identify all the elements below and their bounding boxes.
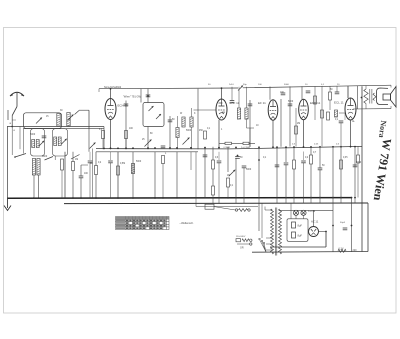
wire x320 gnd — [319, 170, 321, 198]
switch S5 — [45, 157, 54, 161]
wire x277 drop — [276, 147, 278, 198]
svg-text:25: 25 — [142, 139, 145, 141]
node pot top — [237, 155, 239, 157]
transformer T1 core b — [276, 208, 278, 256]
transformer T2 primary — [364, 89, 368, 104]
svg-text:50: 50 — [90, 163, 93, 165]
transformer T2 secondary — [373, 93, 376, 101]
node heater1 — [332, 225, 334, 227]
wire x126 low — [125, 139, 127, 150]
resistor R18 — [329, 92, 332, 100]
resistor R7 — [204, 131, 207, 139]
mains plug X1 — [250, 239, 252, 245]
capacitor C10 — [235, 157, 240, 159]
svg-text:K: K — [194, 113, 196, 115]
wire x118 drop — [117, 152, 119, 198]
svg-text:220: 220 — [353, 249, 358, 252]
wire bus tick 12 — [340, 197, 342, 202]
filter can F1 — [31, 129, 45, 156]
wire V1 cathode down — [110, 120, 112, 150]
wire x126 drop — [125, 101, 127, 150]
coupling loop L1 — [24, 113, 62, 129]
svg-text:0,1: 0,1 — [207, 128, 211, 130]
coil L15 — [335, 110, 338, 117]
svg-text:3000: 3000 — [42, 156, 48, 158]
svg-text:a: a — [10, 122, 12, 125]
svg-text:Nora-Schaltbild: Nora-Schaltbild — [104, 86, 122, 89]
svg-text:2×0,1MΩ: 2×0,1MΩ — [241, 146, 250, 149]
capacitor C30 — [108, 161, 113, 163]
wire mains lower — [237, 243, 250, 245]
junction G16 — [258, 197, 260, 199]
wire V4 plate up — [301, 86, 303, 99]
wire power bottom line — [252, 251, 368, 254]
wire V3 plate up — [269, 87, 271, 100]
wire x104 drop — [103, 127, 105, 150]
svg-text:30: 30 — [60, 110, 63, 112]
wire x250 drop — [249, 100, 251, 147]
capacitor C15 — [288, 104, 293, 106]
junction G5 — [80, 197, 82, 199]
table switch-positions — [116, 217, 170, 230]
potentiometer P1 — [229, 170, 236, 177]
svg-text:100: 100 — [129, 128, 134, 130]
wire x320 drop — [319, 147, 321, 169]
junction J8 — [169, 147, 171, 149]
wire x341 grid — [340, 123, 342, 146]
svg-text:"Wien" 791 GW: "Wien" 791 GW — [123, 94, 142, 98]
wire lamp1 drop — [295, 215, 297, 218]
svg-text:0,3: 0,3 — [215, 157, 219, 159]
resistor R12 — [227, 178, 230, 187]
wire T2 bot lead — [365, 104, 367, 109]
transformer T2 core b — [371, 89, 373, 104]
svg-text:50: 50 — [172, 119, 175, 121]
capacitor C31 — [217, 161, 222, 163]
junction G2 — [38, 197, 40, 199]
wire x228 gnd — [227, 187, 229, 198]
svg-text:450: 450 — [199, 130, 204, 132]
wire V5 plate up — [347, 86, 349, 98]
pilot lamp LA2 — [301, 210, 306, 215]
junction G15 — [243, 197, 245, 199]
junction J9 — [176, 147, 178, 149]
junction J14 — [258, 146, 260, 148]
wire L12 bot — [191, 127, 193, 149]
resistor R21 mains — [242, 239, 249, 242]
wire input line2 — [23, 128, 104, 130]
junction G21 — [332, 197, 334, 199]
wire V6 top — [313, 210, 315, 226]
osc loop L9 — [143, 103, 164, 127]
wire x232 drop — [231, 87, 233, 100]
junction J5 — [132, 147, 134, 149]
junction J21 — [319, 146, 321, 148]
wire x337 — [336, 86, 338, 92]
svg-text:2M: 2M — [297, 123, 300, 125]
resistor R16 — [314, 96, 317, 104]
transformer T1 secondary — [279, 209, 282, 254]
wire V2 cathode down — [218, 120, 220, 147]
capacitor C18 — [306, 91, 311, 93]
svg-text:50μF: 50μF — [340, 222, 346, 224]
wire L12 top — [191, 108, 193, 117]
wire right frame vertical — [361, 86, 363, 251]
svg-text:8μF: 8μF — [298, 224, 303, 228]
wire x196 drop — [195, 152, 197, 207]
coil L6 — [54, 137, 57, 146]
trimmer C1 — [36, 118, 42, 124]
wire x239 top — [238, 87, 240, 108]
node V2 plate — [221, 87, 223, 89]
wire x290 drop — [289, 86, 291, 146]
speaker LS cone — [391, 87, 397, 108]
resistor R5 — [125, 131, 128, 139]
coil L2 — [57, 114, 60, 127]
svg-text:50: 50 — [208, 84, 211, 86]
wire x163 low — [162, 164, 164, 199]
wire x358 gnd — [357, 163, 359, 198]
node L3 arrow — [69, 118, 71, 120]
capacitor C23 8uF — [292, 232, 296, 238]
wire pickup link — [214, 207, 235, 210]
svg-text:0,1: 0,1 — [321, 84, 325, 86]
wire spk bot — [353, 108, 391, 110]
node spk junction — [361, 97, 363, 99]
junction G20 — [319, 197, 321, 199]
resistor R10 box — [225, 142, 232, 144]
speaker LS magnet — [377, 88, 389, 105]
wire x262 pow — [261, 203, 263, 238]
label section box — [98, 89, 100, 92]
resistor R23 pickup — [239, 209, 248, 212]
coil L16 — [32, 159, 35, 176]
wire x296 drop — [295, 108, 297, 147]
svg-text:0,1: 0,1 — [230, 185, 234, 187]
wire bus tick 2 — [218, 198, 220, 203]
wire bus tick 6 — [276, 198, 278, 203]
wire x23 drop — [23, 129, 25, 154]
wire T1 top left — [265, 209, 273, 211]
coil L13 — [237, 108, 240, 119]
wire x330 top — [329, 86, 331, 92]
wire x12 tick — [12, 119, 16, 121]
wire V3 cathode down — [272, 120, 274, 147]
junction J4 — [125, 147, 127, 149]
svg-text:W 791 Wien: W 791 Wien — [371, 137, 395, 201]
junction J15 — [272, 146, 274, 148]
wire x303 low — [303, 152, 305, 161]
junction J11 — [204, 147, 206, 149]
junction J12 — [218, 147, 220, 149]
wire can2 bot — [54, 156, 56, 160]
svg-text:0,2: 0,2 — [305, 157, 309, 159]
svg-text:→Wellensch.: →Wellensch. — [179, 221, 195, 225]
junction G7 — [117, 197, 119, 199]
wire L10 top — [177, 116, 179, 128]
wire x198 drop — [197, 89, 199, 150]
wire x155 drop — [154, 152, 156, 198]
resistor R17 — [321, 110, 324, 118]
wire x110 gnd2 — [110, 152, 112, 160]
wire x205 drop — [204, 147, 206, 198]
svg-text:EBF 11: EBF 11 — [230, 101, 240, 105]
tube V5 ECL11 — [345, 98, 356, 120]
wire x213 drop — [212, 147, 214, 160]
wire T1 sec top — [280, 209, 334, 211]
resistor R15 — [310, 155, 313, 164]
pickup terminal TA1 — [235, 209, 237, 211]
trimmer C9 — [183, 138, 190, 145]
wire V6 right — [319, 231, 327, 233]
junction G23 — [351, 197, 353, 199]
svg-text:80: 80 — [150, 133, 153, 135]
svg-text:0,1: 0,1 — [335, 119, 339, 121]
trimmer osc2 — [61, 139, 67, 145]
resistor R3 — [102, 131, 105, 139]
junction J1 — [103, 147, 105, 149]
wire L16 bot — [33, 175, 35, 198]
svg-text:AZ 11: AZ 11 — [311, 220, 319, 224]
junction J19 — [303, 146, 305, 148]
switch S4 — [15, 154, 26, 158]
coil L14 — [245, 108, 248, 119]
capacitor C29 — [88, 161, 93, 163]
junction J13 — [235, 147, 237, 149]
svg-text:0,35: 0,35 — [343, 157, 348, 159]
trimmer C5 — [156, 114, 161, 119]
wire x103 low — [102, 139, 104, 150]
wire x265 pow — [264, 207, 266, 211]
junction G22 — [340, 197, 342, 199]
wire x326 heat — [325, 232, 327, 248]
trimmer L3 core — [68, 115, 74, 121]
junction J2 — [110, 147, 112, 149]
wire L17 bot — [38, 175, 40, 198]
wire x341 drop — [340, 146, 342, 197]
resistor R22 heater — [338, 249, 346, 252]
wire x322 drop — [321, 86, 323, 146]
jack box X2 — [205, 204, 214, 209]
wire x286 low — [285, 147, 287, 162]
junction G3 — [64, 197, 66, 199]
node x259 — [258, 159, 260, 161]
svg-text:1M: 1M — [227, 175, 230, 177]
resistor R4 — [117, 166, 120, 175]
wire top bus left — [99, 87, 238, 90]
coil L4 — [32, 140, 35, 148]
wire x330 low — [329, 100, 331, 110]
wire pot drop — [227, 147, 229, 172]
wire bus tick 1 — [212, 198, 214, 203]
coil L11 — [182, 117, 185, 127]
capacitor C14 — [281, 93, 286, 95]
svg-text:50: 50 — [240, 157, 243, 159]
wire x219 low — [218, 163, 220, 198]
coil L10 — [176, 128, 179, 138]
capacitor C12 — [248, 104, 253, 106]
wire x89 drop — [88, 110, 90, 128]
trimmer osc1 — [39, 141, 45, 147]
junction J6 — [147, 147, 149, 149]
svg-text:8μF: 8μF — [298, 234, 303, 238]
wire T1 tap2 — [266, 243, 273, 245]
wire antenna drop — [11, 116, 13, 127]
coil L12 — [190, 117, 193, 127]
svg-text:0,3: 0,3 — [292, 144, 296, 146]
wire C2 top — [80, 165, 82, 176]
wire x133 drop — [132, 152, 134, 198]
svg-text:EF 11: EF 11 — [258, 101, 266, 105]
wire C2 bot — [80, 178, 82, 198]
wire y128 link — [247, 127, 255, 129]
svg-text:100: 100 — [258, 84, 262, 86]
capacitor C28 — [161, 146, 166, 148]
tube V4 EFM11 — [299, 99, 309, 119]
wire heater2 — [351, 198, 353, 252]
antenna A1 — [10, 92, 24, 107]
antenna switch S1 — [12, 107, 17, 116]
wire earth stub — [7, 110, 9, 120]
speaker LS pole — [383, 94, 391, 100]
junction G6 — [95, 197, 97, 199]
trimmer S7 arrow — [90, 143, 96, 149]
svg-text:15: 15 — [46, 116, 49, 118]
wire spk left vert — [357, 86, 359, 109]
junction G9 — [154, 197, 156, 199]
svg-text:0,5MΩ: 0,5MΩ — [224, 147, 231, 149]
junction G17 — [285, 197, 287, 199]
junction J3 — [117, 147, 119, 149]
wire R10-R11 link — [219, 142, 255, 144]
wire C2 stub — [81, 164, 88, 166]
junction J23 — [340, 146, 342, 148]
junction J22 — [332, 146, 334, 148]
fuse F1 — [236, 239, 241, 242]
svg-text:5000: 5000 — [246, 169, 252, 171]
tube V1 ECH11 — [105, 99, 116, 120]
capacitor C26 — [275, 165, 280, 167]
resistor R9 — [212, 186, 215, 195]
capacitor C22 8uF — [292, 222, 296, 228]
switch S2 — [75, 111, 80, 115]
junction G19 — [310, 197, 312, 199]
svg-text:1: 1 — [165, 153, 167, 155]
resistor R24 — [357, 155, 360, 163]
junction G24 — [354, 197, 356, 199]
capacitor C3 — [124, 104, 129, 106]
wire bus tick 5 — [258, 198, 260, 203]
resistor R25 — [61, 159, 64, 170]
svg-text:2×0,2A: 2×0,2A — [308, 210, 316, 213]
svg-text:1: 1 — [221, 129, 223, 131]
wire AVC line — [96, 151, 198, 153]
wire grid feed V2 — [194, 109, 217, 111]
svg-text:0,7: 0,7 — [313, 152, 317, 154]
svg-text:30p: 30p — [243, 84, 247, 86]
coil L8 — [131, 164, 134, 174]
junction G8 — [132, 197, 134, 199]
wire x110 low — [110, 163, 112, 198]
wire x96 stub — [89, 152, 91, 160]
transformer T2 core a — [369, 89, 371, 104]
svg-text:50: 50 — [322, 165, 325, 167]
junction J18 — [293, 146, 295, 148]
wire ground bus — [7, 197, 352, 200]
capacitor C6 — [146, 95, 151, 97]
wire T1 tap1 — [266, 237, 273, 239]
svg-text:0,1: 0,1 — [263, 157, 267, 159]
wire heater1 — [332, 198, 334, 252]
trimmer C4 — [149, 106, 154, 111]
wire x177 low — [176, 152, 178, 198]
resistor R20 — [340, 160, 343, 169]
node antenna tap — [11, 126, 13, 128]
svg-text:Nora: Nora — [377, 120, 388, 138]
trimmer C7 — [145, 140, 152, 147]
wire bus tick 4 — [243, 198, 245, 203]
tube V3 EF11 — [268, 100, 278, 120]
junction G4 — [72, 197, 74, 199]
junction J20 — [310, 146, 312, 148]
tube V2 EBF11 — [216, 99, 227, 120]
junction G1 — [33, 197, 35, 199]
transformer T1 core a — [274, 208, 276, 256]
svg-text:6,3V: 6,3V — [339, 247, 344, 250]
resistor R13 — [295, 126, 298, 134]
node S4 pivot — [14, 156, 16, 158]
wire band line — [79, 109, 89, 111]
svg-text:0,5M: 0,5M — [120, 163, 125, 165]
capacitor C24 — [343, 228, 348, 230]
wire x348 top — [347, 86, 349, 98]
svg-text:0,2: 0,2 — [98, 162, 102, 164]
junction J24 — [350, 146, 352, 148]
voltage selector S3 — [259, 238, 266, 252]
svg-text:20: 20 — [337, 84, 340, 86]
svg-text:100: 100 — [84, 173, 89, 175]
capacitor C21 — [353, 165, 358, 167]
wire x90 low — [89, 163, 91, 198]
wire R2 top — [95, 152, 97, 166]
wire x219 bias — [218, 152, 220, 160]
wire V5 cathode down — [350, 120, 352, 146]
svg-text:10: 10 — [305, 84, 308, 86]
wire x246 low — [246, 119, 248, 128]
wire V2 plate up — [221, 88, 223, 99]
wire x333 drop — [332, 146, 334, 197]
capacitor C13 — [230, 101, 235, 103]
capacitor C25 — [42, 136, 47, 138]
svg-text:5000: 5000 — [186, 130, 192, 132]
wire ground bus 2 — [64, 202, 368, 205]
wire V4 cathode down — [303, 120, 305, 147]
wire x311 top — [310, 147, 312, 156]
svg-text:5000: 5000 — [356, 162, 362, 164]
wire x213 low — [212, 169, 214, 186]
wire x259 drop — [258, 147, 260, 198]
capacitor C16 — [284, 163, 289, 165]
wire bus tick 13 — [354, 197, 356, 202]
capacitor C32 — [301, 161, 306, 163]
wire bus tick 3 — [235, 198, 237, 203]
wire bus drop right — [367, 203, 369, 252]
wire x281 drop — [280, 99, 282, 147]
node heater2 — [351, 225, 353, 227]
junction J10 — [190, 147, 192, 149]
capacitor C11 — [242, 166, 247, 168]
wire V6 down — [325, 232, 327, 248]
